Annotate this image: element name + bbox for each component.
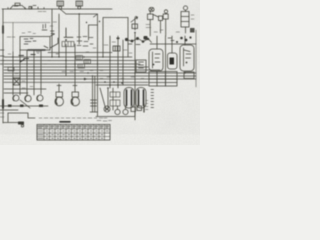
terminal ticks on top wire <box>8 6 44 10</box>
left verticals <box>13 50 41 96</box>
lamp HL2 <box>163 10 168 36</box>
wire drop x135 <box>134 33 136 116</box>
blobs above tube3 <box>176 36 192 43</box>
resistor R3 <box>84 60 91 64</box>
switch S1 with arrow <box>131 17 138 34</box>
hood cover symbol top-left <box>10 3 32 9</box>
motor M2 <box>25 95 31 101</box>
label smudge near top-left <box>14 6 46 11</box>
wire verticals center <box>110 36 123 88</box>
heavy mark left border <box>2 100 4 108</box>
bus segment center lower <box>96 84 148 86</box>
component mark x66 <box>64 14 98 41</box>
text smudge in relay box <box>24 39 36 45</box>
resistor R4 <box>78 64 85 68</box>
vertical note text <box>151 90 154 108</box>
transformer T1 <box>57 1 64 9</box>
small box right edge <box>184 72 194 79</box>
switch box with X left <box>13 78 20 85</box>
resistor R2 <box>76 56 83 60</box>
pump P2 lead <box>73 84 77 92</box>
resistor R8 on bus <box>8 67 14 71</box>
wires lower-left <box>4 89 46 93</box>
tube V2 <box>168 53 178 69</box>
label 02 <box>36 52 40 54</box>
blob right of switch <box>144 36 148 40</box>
wire drop x66 <box>65 44 67 76</box>
tube V1 <box>149 49 163 71</box>
dark dash on left border <box>2 26 4 33</box>
table header text smudges <box>38 126 109 128</box>
branch wire x88 <box>86 21 100 40</box>
label smudge under HL1 <box>146 15 194 28</box>
wire x165 vertical <box>165 36 167 86</box>
relay box center <box>136 60 146 72</box>
motor M1 <box>13 95 19 101</box>
junction dots on buses <box>12 56 185 76</box>
small box pair right of gauges <box>131 106 142 112</box>
wire drop x59 <box>58 14 60 57</box>
pump P1 lead <box>57 84 61 92</box>
meter P1 <box>181 6 195 33</box>
winding W2 <box>136 88 146 109</box>
junction cluster center <box>104 81 123 89</box>
bold note above table <box>60 121 70 123</box>
contact marks row <box>128 39 152 45</box>
gauge G1 <box>115 106 120 115</box>
pump P2 <box>71 92 80 106</box>
lamp HL1 <box>148 7 159 36</box>
meter circle bottom <box>104 106 110 112</box>
small circle terminal <box>21 125 23 127</box>
winding W1 <box>124 88 134 109</box>
bus wires <box>3 23 196 83</box>
switch marks on x52 wire <box>51 31 55 36</box>
capacitor pair vertical <box>90 76 98 112</box>
frame top border wire <box>2 8 112 10</box>
frame right border wire <box>195 30 197 87</box>
terminal ticks left border <box>0 50 4 64</box>
wire drop x79 <box>78 14 80 44</box>
bottom-left bus <box>0 106 48 110</box>
bottom center bus <box>96 112 135 121</box>
title text above table <box>39 117 107 119</box>
small terminal marks x42-47 <box>42 24 47 30</box>
transformer T2 <box>76 1 83 9</box>
gauge G2 <box>123 106 128 115</box>
contact marks on left verticals <box>19 55 35 63</box>
pump P1 <box>55 92 64 106</box>
arrowhead on bus <box>84 78 87 81</box>
relay coil box left <box>20 37 50 51</box>
blobs on bottom-left bus <box>8 105 43 108</box>
aux contact right of HL1 <box>159 16 163 33</box>
wire T1 to bus <box>60 9 97 15</box>
faint labels above relay box <box>22 32 36 34</box>
ladder rails <box>108 88 113 110</box>
parts table <box>37 125 110 141</box>
wire drop x75 <box>74 44 76 84</box>
ground blob <box>18 122 24 125</box>
paper background <box>0 0 200 145</box>
label smudges left column <box>0 37 25 117</box>
relay blobs center top <box>117 37 150 43</box>
table body text smudges <box>38 131 109 138</box>
scattered label smudges <box>22 22 180 88</box>
ladder resistor R7 <box>110 100 120 106</box>
wire diagonals mid <box>44 38 58 48</box>
bracket outline bottom-left <box>3 113 35 123</box>
motor M3 <box>37 95 43 101</box>
wires above tubes <box>150 36 196 53</box>
frame left border wire <box>2 9 4 123</box>
label smudges near table top-right <box>97 120 112 123</box>
wire drop x52 <box>51 9 53 57</box>
wire drop x97 <box>97 14 99 116</box>
bracket mark <box>144 101 148 113</box>
ladder resistor R6 <box>110 92 120 97</box>
resistor R5 <box>113 46 120 51</box>
tube V3 <box>180 45 194 71</box>
heavy contact bar <box>28 49 45 51</box>
diagonal wire <box>20 100 30 108</box>
diagonal lower center <box>100 88 106 110</box>
contactor box K1 (big rectangle) <box>103 18 128 58</box>
resistor R1 hatched <box>62 42 74 47</box>
label smudges mid <box>77 37 93 47</box>
terminal block box right <box>149 72 177 87</box>
faint vertical x13 upper <box>12 23 14 53</box>
